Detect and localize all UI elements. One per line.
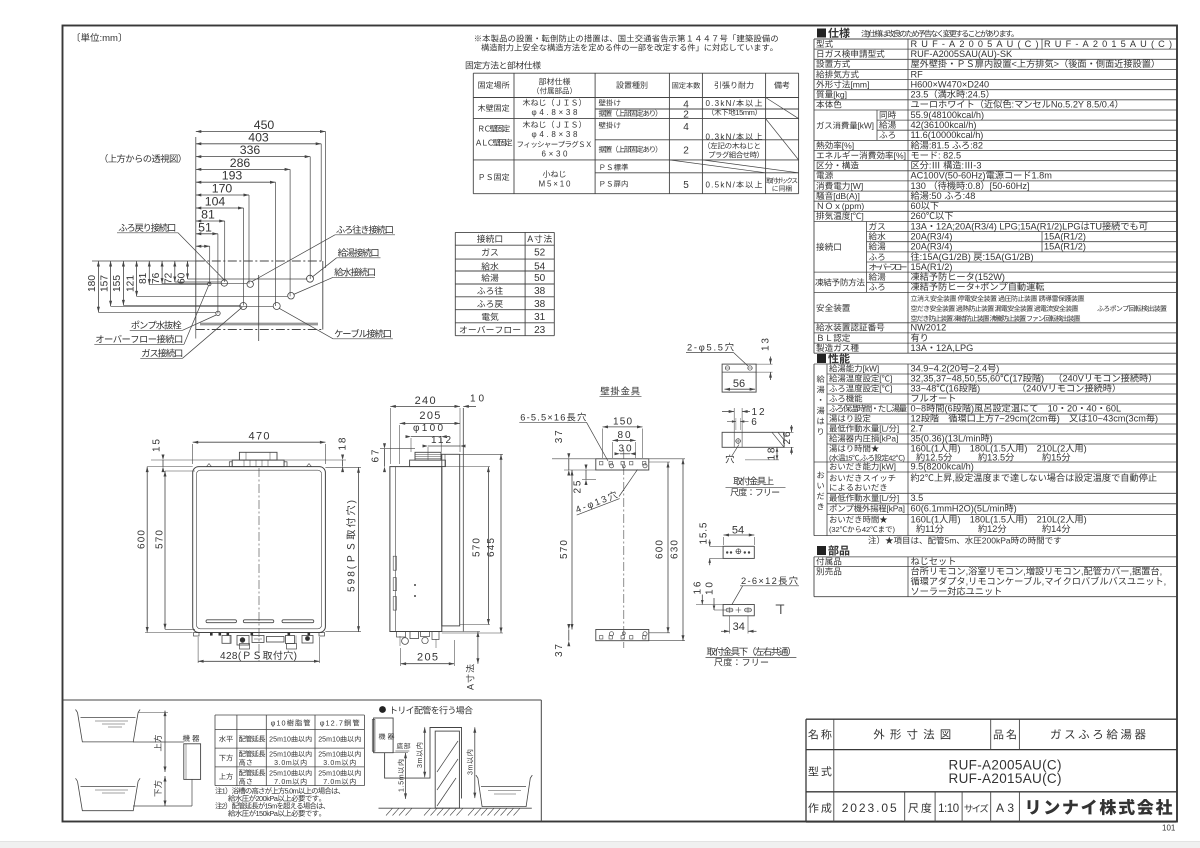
bracket dim 570 <box>571 470 573 630</box>
torii dim 3m left <box>424 727 426 777</box>
front view center line <box>258 468 260 661</box>
svg-text:機器: 機器 <box>183 733 201 744</box>
front view dim 428 <box>198 660 319 662</box>
bottom box frame <box>63 699 542 701</box>
svg-text:2: 2 <box>683 142 689 157</box>
svg-text:型式: 型式 <box>808 764 832 780</box>
svg-text:水平: 水平 <box>219 735 234 745</box>
bottom page edge strip <box>0 842 1200 848</box>
svg-text:ポンプ水抜栓: ポンプ水抜栓 <box>131 318 183 332</box>
svg-text:引張り耐力: 引張り耐力 <box>714 80 754 91</box>
svg-text:約14分: 約14分 <box>1042 521 1071 535</box>
svg-text:ガス消費量[kW]: ガス消費量[kW] <box>816 119 874 131</box>
svg-text:6×30: 6×30 <box>542 149 569 160</box>
svg-text:尺度: 尺度 <box>908 800 932 816</box>
svg-text:15A(R1/2): 15A(R1/2) <box>1044 239 1086 253</box>
svg-text:598(ＰＳ取付穴): 598(ＰＳ取付穴) <box>343 500 358 592</box>
svg-text:排気温度[℃]: 排気温度[℃] <box>816 210 864 222</box>
svg-text:0.5kN/本以上: 0.5kN/本以上 <box>706 180 763 191</box>
svg-text:機器: 機器 <box>379 732 395 742</box>
svg-text:屋外壁掛・ＰＳ扉内設置<上方排気>（後面・側面近接設置）: 屋外壁掛・ＰＳ扉内設置<上方排気>（後面・側面近接設置） <box>911 56 1161 70</box>
wall bracket center line <box>623 450 625 648</box>
torii ground <box>379 807 532 809</box>
detail dim 12 <box>733 408 735 432</box>
svg-text:12段階 循環口上方7~29cm(2cm毎) 又は10~43: 12段階 循環口上方7~29cm(2cm毎) 又は10~43cm(3cm毎) <box>911 411 1159 425</box>
svg-text:112: 112 <box>431 431 451 446</box>
top view connector lines <box>98 311 215 313</box>
side view dim 240 <box>390 405 460 407</box>
svg-text:品名: 品名 <box>993 726 1017 742</box>
svg-text:3.0m以内: 3.0m以内 <box>323 758 356 768</box>
svg-text:注）★項目は、配管5m、水圧200kPa時の時間です: 注）★項目は、配管5m、水圧200kPa時の時間です <box>868 535 1062 547</box>
svg-text:（木下地15mm）: （木下地15mm） <box>707 107 762 118</box>
svg-text:接続口: 接続口 <box>816 241 842 253</box>
svg-text:本体色: 本体色 <box>816 99 842 111</box>
svg-text:26: 26 <box>778 431 793 444</box>
svg-text:上方: 上方 <box>152 734 164 751</box>
detail dim 56 <box>725 388 756 390</box>
svg-text:φ12.7銅管: φ12.7銅管 <box>320 718 360 728</box>
upper dim jouhou <box>164 711 166 772</box>
svg-text:37: 37 <box>550 644 565 657</box>
front view vent slots <box>206 620 237 623</box>
torii pipe <box>385 728 462 799</box>
svg-text:RUF-A2015AU(C): RUF-A2015AU(C) <box>1044 36 1172 50</box>
svg-text:（付属部品）: （付属部品） <box>532 86 577 97</box>
front view body <box>193 467 326 633</box>
svg-text:ガス: ガス <box>481 245 499 258</box>
svg-text:34: 34 <box>733 618 745 634</box>
svg-text:約13.5分: 約13.5分 <box>978 449 1014 463</box>
svg-text:壁掛け: 壁掛け <box>599 120 622 131</box>
svg-text:ふろポンプ回転検出装置: ふろポンプ回転検出装置 <box>1097 304 1167 314</box>
svg-text:底部: 底部 <box>397 741 411 751</box>
bracket hole label 4-phi13 <box>572 487 620 517</box>
svg-text:ガス接続口: ガス接続口 <box>141 346 183 360</box>
detail mid part <box>723 546 754 558</box>
svg-text:に同梱: に同梱 <box>772 183 793 193</box>
svg-text:23: 23 <box>534 321 546 336</box>
side view dim 645 right <box>500 454 502 633</box>
detail corner mark <box>776 605 785 614</box>
front view bottom fittings <box>196 632 322 634</box>
torii equipment <box>374 718 394 753</box>
svg-text:空だき防止装置 凍結防止装置 沸騰防止装置 ファン回転検出装: 空だき防止装置 凍結防止装置 沸騰防止装置 ファン回転検出装置 <box>911 314 1081 324</box>
svg-text:25: 25 <box>569 480 584 493</box>
svg-text:570: 570 <box>555 540 570 559</box>
svg-text:ＲＣ壁固定: ＲＣ壁固定 <box>477 124 510 135</box>
svg-text:205: 205 <box>417 649 438 665</box>
fix-method table grid <box>473 72 798 74</box>
svg-text:固定本数: 固定本数 <box>672 81 701 91</box>
front view dim 600 <box>146 467 148 633</box>
top view left vertical dims <box>92 260 196 262</box>
svg-text:注)仕様は改良のため予告なく変更することがあります。: 注)仕様は改良のため予告なく変更することがあります。 <box>861 29 1019 40</box>
side view dim A <box>477 632 479 664</box>
svg-text:備考: 備考 <box>774 80 790 91</box>
svg-text:（上方からの透視図）: （上方からの透視図） <box>99 151 187 165</box>
side view dim 570 right <box>487 467 489 625</box>
svg-text:54: 54 <box>732 522 744 538</box>
svg-text:2-6×12長穴: 2-6×12長穴 <box>741 573 798 587</box>
svg-text:〔単位:mm〕: 〔単位:mm〕 <box>71 30 127 44</box>
lower bathtub <box>78 781 139 810</box>
svg-text:ＰＳ固定: ＰＳ固定 <box>478 172 510 183</box>
svg-text:ガスふろ給湯器: ガスふろ給湯器 <box>1050 726 1147 742</box>
svg-text:高さ: 高さ <box>239 758 254 768</box>
svg-text:り: り <box>817 426 825 438</box>
side view body <box>390 467 442 632</box>
svg-text:φ4.8×38: φ4.8×38 <box>532 107 579 118</box>
wall bracket top plate <box>596 459 649 470</box>
svg-text:別売品: 別売品 <box>816 566 842 578</box>
bracket dim 30 <box>620 453 630 455</box>
svg-text:600: 600 <box>132 530 147 549</box>
detail top strap part <box>722 364 756 392</box>
front view flue <box>232 460 284 467</box>
side view face slots <box>393 556 396 570</box>
wall bracket bottom plate <box>596 630 649 641</box>
svg-text:(32℃から42℃まで): (32℃から42℃まで) <box>829 524 895 535</box>
performance table grid <box>814 363 1177 365</box>
svg-text:約12分: 約12分 <box>978 521 1007 535</box>
side view dim 205 top <box>400 422 460 424</box>
svg-text:オーバーフロー接続口: オーバーフロー接続口 <box>95 332 183 346</box>
svg-text:6: 6 <box>751 413 757 428</box>
svg-text:オーバーフロー: オーバーフロー <box>459 323 521 336</box>
svg-text:ＰＳ扉内: ＰＳ扉内 <box>599 179 629 190</box>
svg-text:外形寸法図: 外形寸法図 <box>873 726 951 742</box>
front view dim 598 <box>358 467 360 631</box>
svg-text:凍結予防ヒータ+ポンプ自動運転: 凍結予防ヒータ+ポンプ自動運転 <box>911 279 1045 293</box>
svg-text:52: 52 <box>534 243 546 258</box>
performance header <box>817 354 826 363</box>
svg-text:給湯接続口: 給湯接続口 <box>338 245 380 259</box>
svg-text:ふろ往: ふろ往 <box>477 284 504 297</box>
detail bottom part <box>723 605 754 616</box>
title block grid <box>806 718 1177 720</box>
svg-text:フィッシャープラグＳＸ: フィッシャープラグＳＸ <box>517 139 593 150</box>
svg-text:15.5: 15.5 <box>695 522 710 544</box>
svg-text:名称: 名称 <box>808 726 832 742</box>
svg-text:37: 37 <box>550 430 565 443</box>
torii dim 1.5m <box>405 753 407 799</box>
detail dim 6 <box>735 418 737 430</box>
torii bathtub <box>478 778 530 807</box>
connection size table <box>455 231 554 233</box>
svg-text:据置（上部固定あり）: 据置（上部固定あり） <box>599 144 663 155</box>
svg-text:尺度：フリー: 尺度：フリー <box>714 655 769 668</box>
svg-text:428(ＰＳ取付穴): 428(ＰＳ取付穴) <box>220 647 297 662</box>
svg-text:25m10曲以内: 25m10曲以内 <box>269 735 312 745</box>
side view flue <box>410 460 446 467</box>
top view dim extension verticals <box>195 137 197 261</box>
side view bottom fittings <box>397 632 406 638</box>
svg-text:壁掛け: 壁掛け <box>599 98 622 109</box>
svg-text:A寸法: A寸法 <box>464 664 477 690</box>
piping table <box>215 714 364 716</box>
piping lines <box>133 741 184 743</box>
svg-text:木壁固定: 木壁固定 <box>478 103 510 114</box>
bracket dim 150 <box>603 426 643 428</box>
svg-text:ケーブル接続口: ケーブル接続口 <box>334 326 392 340</box>
bracket dim 80 <box>613 439 636 441</box>
detail dim 34 <box>729 616 731 634</box>
svg-text:据置（上部固定あり）: 据置（上部固定あり） <box>599 108 663 119</box>
svg-text:67: 67 <box>367 449 382 462</box>
upper bathtub <box>78 713 139 742</box>
svg-text:ふろ: ふろ <box>869 281 886 293</box>
svg-text:470: 470 <box>249 428 270 444</box>
svg-text:設置種別: 設置種別 <box>616 80 648 91</box>
svg-text:リンナイ株式会社: リンナイ株式会社 <box>1025 794 1173 819</box>
svg-text:サイズ: サイズ <box>964 801 989 815</box>
svg-text:570: 570 <box>468 538 483 557</box>
side view dim 112 <box>428 445 460 447</box>
svg-text:ふろ戻り接続口: ふろ戻り接続口 <box>118 220 176 234</box>
svg-text:給水接続口: 給水接続口 <box>334 265 376 279</box>
front view mounting marks <box>207 464 212 467</box>
svg-text:凍結予防方法: 凍結予防方法 <box>815 277 865 289</box>
svg-text:固定方法と部材仕様: 固定方法と部材仕様 <box>465 59 541 72</box>
svg-text:接続口: 接続口 <box>477 232 503 245</box>
svg-text:1:10: 1:10 <box>938 800 959 816</box>
svg-text:ＰＳ標準: ＰＳ標準 <box>599 162 629 173</box>
svg-text:3m以内: 3m以内 <box>465 749 475 775</box>
svg-text:A3: A3 <box>996 799 1014 816</box>
svg-text:630: 630 <box>666 540 681 559</box>
svg-text:3.0m以内: 3.0m以内 <box>274 758 307 768</box>
svg-text:645: 645 <box>482 538 497 557</box>
svg-text:2-φ5.5穴: 2-φ5.5穴 <box>687 340 734 354</box>
svg-text:56: 56 <box>733 375 745 391</box>
svg-text:1.5m以内: 1.5m以内 <box>397 759 407 792</box>
svg-text:51: 51 <box>198 217 212 235</box>
torii dim 3m right <box>474 727 476 798</box>
svg-text:3m以内: 3m以内 <box>415 742 425 768</box>
svg-text:き: き <box>817 501 825 513</box>
svg-text:約2℃上昇,設定温度まで達しない場合は設定温度で自動停止: 約2℃上昇,設定温度まで達しない場合は設定温度で自動停止 <box>911 470 1158 484</box>
spec table grid <box>814 38 1177 40</box>
svg-text:給湯: 給湯 <box>481 271 499 284</box>
svg-text:下方: 下方 <box>152 780 164 797</box>
svg-text:構造耐力上安全な構造方法を定める件の一部を改定する件」に対応: 構造耐力上安全な構造方法を定める件の一部を改定する件」に対応しています。 <box>481 42 778 54</box>
svg-text:25m10曲以内: 25m10曲以内 <box>318 735 361 745</box>
svg-text:上方: 上方 <box>219 772 234 782</box>
svg-text:給水圧が150kPa以上必要です。: 給水圧が150kPa以上必要です。 <box>228 808 326 819</box>
svg-text:約11分: 約11分 <box>916 521 944 535</box>
side view back plate <box>442 454 460 626</box>
bracket dim 630 <box>682 459 684 641</box>
svg-text:安全装置: 安全装置 <box>816 302 851 314</box>
svg-text:570: 570 <box>150 530 165 549</box>
front view dim 570 <box>164 471 166 629</box>
torii wall <box>435 731 459 808</box>
svg-text:下方: 下方 <box>219 753 234 763</box>
svg-text:ふろ戻: ふろ戻 <box>477 297 504 310</box>
svg-text:15: 15 <box>148 439 163 452</box>
spec table header <box>817 29 826 38</box>
svg-text:電気: 電気 <box>481 310 499 323</box>
svg-text:13A・12A,LPG: 13A・12A,LPG <box>911 340 974 354</box>
svg-text:配管延長: 配管延長 <box>239 735 267 745</box>
fix table diagonals <box>766 98 799 119</box>
svg-text:約15分: 約15分 <box>1042 449 1071 463</box>
svg-text:プラグ組合せ時）: プラグ組合せ時） <box>708 150 764 161</box>
svg-text:10: 10 <box>700 582 715 595</box>
svg-text:18: 18 <box>334 437 349 450</box>
svg-text:4: 4 <box>683 118 689 133</box>
svg-text:13: 13 <box>757 338 772 351</box>
svg-text:600: 600 <box>651 540 666 559</box>
svg-text:18: 18 <box>763 447 778 460</box>
svg-text:2023.05: 2023.05 <box>842 799 897 816</box>
svg-text:30: 30 <box>619 440 632 455</box>
side view dim phi100 <box>411 436 441 438</box>
svg-text:ソーラー対応ユニット: ソーラー対応ユニット <box>911 584 1003 598</box>
svg-text:M5×10: M5×10 <box>539 179 572 190</box>
svg-text:おいだき能力[kW]: おいだき能力[kW] <box>829 461 896 473</box>
svg-text:101: 101 <box>1162 823 1176 834</box>
svg-text:空だき安全装置 過熱防止装置 漏電安全装置 過電流安全装置: 空だき安全装置 過熱防止装置 漏電安全装置 過電流安全装置 <box>911 304 1079 314</box>
svg-text:5: 5 <box>683 176 689 191</box>
svg-text:作成: 作成 <box>808 800 832 816</box>
parts header <box>817 546 826 555</box>
svg-text:壁掛金具: 壁掛金具 <box>600 384 640 398</box>
svg-text:RUF-A2015AU(C): RUF-A2015AU(C) <box>949 767 1062 787</box>
svg-text:立消え安全装置 停電安全装置 過圧防止装置 誘導雷保護装置: 立消え安全装置 停電安全装置 過圧防止装置 誘導雷保護装置 <box>911 294 1085 304</box>
bracket dim 600 <box>667 462 669 633</box>
svg-text:ふろ: ふろ <box>879 129 896 141</box>
svg-text:固定場所: 固定場所 <box>478 80 510 91</box>
top view dim lines <box>196 131 326 133</box>
svg-text:φ10樹脂管: φ10樹脂管 <box>271 718 311 728</box>
top view connection circles <box>221 280 227 286</box>
front view dim 470 <box>193 441 326 443</box>
detail upper fitting part <box>722 432 784 447</box>
svg-text:240: 240 <box>415 392 436 408</box>
top view unit box <box>196 260 323 262</box>
svg-text:150: 150 <box>613 412 632 427</box>
side view wall line <box>462 408 464 632</box>
side view dim 205 bottom <box>401 663 455 665</box>
lower dim kahou <box>164 776 166 806</box>
svg-text:尺度：フリー: 尺度：フリー <box>730 486 780 499</box>
detail dim 54 <box>724 534 755 536</box>
svg-text:ＡＬＣ壁固定: ＡＬＣ壁固定 <box>475 138 513 149</box>
svg-text:トリイ配管を行う場合: トリイ配管を行う場合 <box>389 704 473 717</box>
svg-text:10: 10 <box>470 390 484 405</box>
svg-text:ふろ往き接続口: ふろ往き接続口 <box>336 222 394 236</box>
top view small dim <box>196 245 210 247</box>
svg-text:6-5.5×16長穴: 6-5.5×16長穴 <box>520 410 586 424</box>
parts table grid <box>814 556 1177 558</box>
torii title <box>379 706 386 713</box>
